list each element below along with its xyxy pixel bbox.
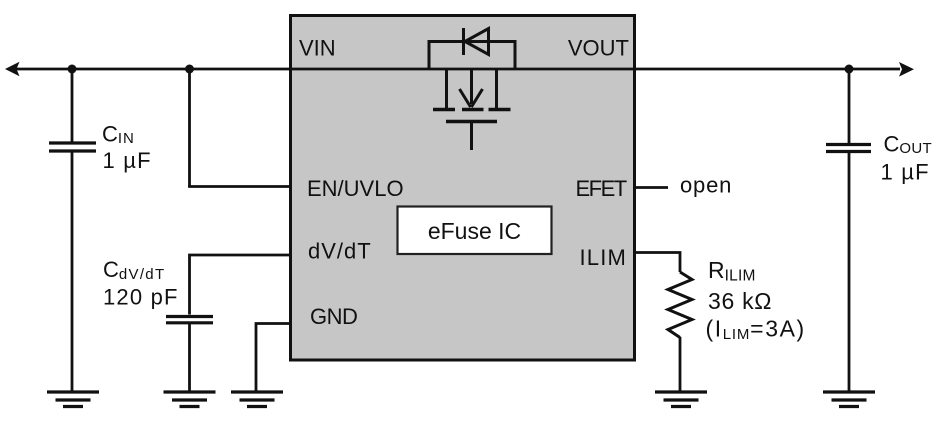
transistor Q1 body arrow (460, 69, 483, 107)
ground (CIN) (47, 392, 99, 407)
transistor Q1 drain lead (445, 69, 448, 108)
wire: EN/UVLO branch vertical (188, 69, 191, 187)
ground (GND pin) (231, 392, 283, 407)
transistor Q1 channel bars (433, 108, 511, 111)
wire: GND pin lead (256, 324, 291, 392)
svg-text:RILIM: RILIM (708, 257, 756, 285)
label CdV/dT (103, 257, 165, 283)
wire: CIN top lead (71, 69, 74, 142)
wire: COUT bottom lead (848, 153, 851, 392)
pin label ILIM (580, 245, 628, 270)
svg-text:GND: GND (310, 304, 357, 329)
value label (ILIM=3A) (706, 316, 806, 344)
value label 1 uF (CIN) (103, 148, 152, 173)
svg-text:VIN: VIN (299, 36, 336, 61)
wire: RILIM bottom lead (679, 337, 682, 391)
capacitor COUT (826, 145, 871, 152)
svg-text:36 kΩ: 36 kΩ (708, 288, 772, 314)
inner block: eFuse IC box (398, 207, 552, 255)
node: EN/UVLO junction (185, 65, 194, 74)
ground (CdV/dT) (164, 392, 216, 407)
IC body U1 (eFuse IC block) (291, 16, 635, 361)
wire: main VIN/VOUT rail (16, 68, 900, 71)
wire: EFET pin stub (634, 186, 668, 189)
value label 1 uF (COUT) (881, 160, 930, 185)
ground (RILIM) (655, 392, 707, 407)
ground (COUT) (823, 392, 875, 407)
label open (680, 173, 732, 198)
pin label dV/dT (308, 239, 372, 264)
pin label EN/UVLO (307, 176, 404, 201)
body diode D1 cathode bar (462, 28, 465, 55)
svg-text:open: open (680, 173, 732, 198)
wire: EN/UVLO branch horizontal (188, 185, 291, 188)
value label 36 kOhm (708, 288, 772, 314)
transistor Q1 source lead (495, 69, 498, 108)
svg-text:ILIM: ILIM (580, 245, 628, 270)
svg-text:CdV/dT: CdV/dT (103, 257, 165, 283)
svg-text:EN/UVLO: EN/UVLO (307, 176, 404, 201)
wire: ILIM pin lead (634, 253, 680, 273)
svg-text:(ILIM=3A): (ILIM=3A) (706, 316, 806, 344)
body diode D1 left stub (428, 40, 431, 69)
body diode D1 top wire (429, 40, 515, 43)
capacitor CIN (49, 143, 96, 151)
wire: CIN bottom lead (71, 152, 74, 391)
svg-text:dV/dT: dV/dT (308, 239, 372, 264)
label COUT (884, 132, 932, 158)
node: COUT junction (845, 65, 854, 74)
resistor RILIM (668, 272, 692, 338)
body diode D1 triangle (465, 29, 489, 55)
right arrow (output) (899, 62, 914, 77)
pin label VIN (299, 36, 336, 61)
svg-text:VOUT: VOUT (568, 36, 629, 61)
label CIN (102, 122, 135, 148)
body diode D1 right stub (514, 40, 517, 69)
svg-text:120 pF: 120 pF (103, 285, 179, 310)
value label 120 pF (103, 285, 179, 310)
svg-text:eFuse IC: eFuse IC (428, 218, 521, 244)
wire: CdV/dT bottom lead (188, 324, 191, 391)
svg-text:CIN: CIN (102, 122, 135, 148)
svg-text:1 µF: 1 µF (103, 148, 152, 173)
svg-text:COUT: COUT (884, 132, 932, 158)
wire: COUT top lead (848, 69, 851, 143)
left arrow (input) (5, 62, 20, 76)
wire: dV/dT pin lead (190, 255, 292, 315)
pin label EFET (576, 176, 627, 201)
node: CIN junction (68, 65, 77, 74)
label RILIM (708, 257, 756, 285)
pin label VOUT (568, 36, 629, 61)
pin label GND (310, 304, 357, 329)
transistor Q1 gate bar (446, 120, 497, 123)
svg-text:1 µF: 1 µF (881, 160, 930, 185)
capacitor CdV/dT (166, 317, 213, 323)
transistor Q1 gate lead (470, 122, 473, 151)
svg-text:EFET: EFET (576, 176, 627, 201)
